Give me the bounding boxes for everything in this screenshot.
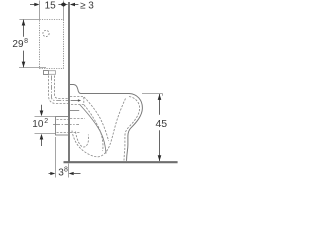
svg-text:45: 45 [155, 118, 167, 130]
dim 3.8 left extension line [55, 137, 57, 178]
outlet bend box [56, 117, 69, 136]
outlet pipe hidden bottom line [70, 132, 80, 134]
outlet centerline [53, 124, 79, 126]
dim >=3 right arrowhead [70, 3, 75, 6]
flush pipe centerline [52, 76, 69, 101]
dim 29.8 down arrowhead [22, 62, 26, 68]
flow arrow [71, 100, 79, 102]
trap inner hook hidden line [76, 132, 89, 148]
WC inlet spud hidden rect [70, 97, 84, 105]
dim 10.2 bottom extension line [35, 133, 56, 135]
WC pan outline [70, 85, 142, 161]
dim 45 up arrowhead [158, 94, 162, 100]
flush knob [43, 30, 49, 36]
dim 3.8 left arrow [49, 173, 51, 175]
spud boss bottom line [70, 110, 79, 112]
dim 45 dimension line [159, 94, 161, 115]
dim 45 down arrowhead [158, 155, 162, 161]
dim 29.8 up arrowhead [22, 20, 26, 26]
shared extension line [63, 1, 65, 20]
svg-text:8: 8 [24, 38, 28, 45]
dim 29.8 bottom extension line [19, 67, 46, 69]
dim 10.2 lower arrow [40, 134, 44, 140]
concealed cistern [40, 20, 64, 69]
svg-text:29: 29 [12, 39, 24, 50]
dim 29.8 top extension line [19, 19, 39, 21]
spud channel upper hidden line [84, 97, 109, 141]
pan inner front hidden line [124, 97, 140, 161]
dim 3.8 right extension line [68, 164, 70, 178]
dim 15 dimension line left [30, 4, 35, 6]
dim 29.8 dimension line [23, 20, 25, 37]
dim 3.8 right arrow [69, 172, 74, 175]
shared diamond arrowheads [60, 2, 67, 6]
dim 45 top extension line [142, 93, 163, 95]
outlet pipe lines through box [57, 119, 69, 121]
svg-text:10: 10 [32, 119, 44, 130]
bowl cavity left hidden line [84, 105, 103, 151]
svg-text:8: 8 [64, 167, 68, 174]
dim 10.2 upper arrow [41, 105, 43, 111]
dim >=3 dimension line tail [75, 4, 78, 6]
bowl cavity and trap hidden outline [72, 99, 126, 157]
dim 15 left arrowhead [34, 3, 39, 6]
flush pipe vertical hidden lines [49, 76, 69, 104]
svg-text:2: 2 [44, 118, 48, 125]
wall [68, 2, 70, 162]
pan silhouette line [80, 105, 106, 154]
dim 15 left extension line [39, 1, 41, 20]
outlet pipe hidden top line [70, 118, 85, 120]
dim 10.2 top extension line [35, 116, 56, 118]
cistern outlet fitting [44, 71, 49, 75]
svg-text:≥ 3: ≥ 3 [80, 1, 94, 12]
svg-text:15: 15 [45, 1, 57, 12]
floor [64, 161, 178, 163]
